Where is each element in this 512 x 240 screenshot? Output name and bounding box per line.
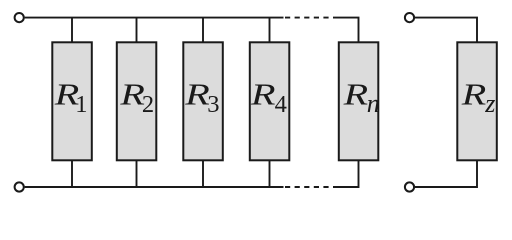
svg-text:R: R [461,77,487,112]
label Rn [342,77,379,118]
resistor R1 [52,42,92,160]
wire bottom bus solid [25,186,284,188]
wire stub top R4 [269,18,271,42]
svg-text:4: 4 [275,91,287,118]
wire stub top R2 [136,18,138,42]
label R4 [250,77,287,118]
wire top bus dashed [285,17,333,19]
wire stub top R1 [71,18,73,42]
svg-text:R: R [250,77,276,112]
svg-text:R: R [342,77,368,112]
svg-text:z: z [484,89,495,118]
terminal bottom-right [405,182,414,191]
wire stub bottom R3 [202,161,204,188]
wire bottom-right to Rz [415,161,477,188]
wire top-right to Rz [415,18,477,42]
svg-text:2: 2 [142,91,154,118]
wire bottom bus dashed [285,186,333,188]
wire stub bottom R1 [71,161,73,188]
resistor Rz [457,42,497,160]
wire top bus to Rn [333,18,359,42]
terminal top-right [405,13,414,22]
wire bottom bus to Rn [333,161,359,188]
resistor R3 [183,42,223,160]
label R2 [119,77,154,118]
wire stub bottom R2 [136,161,138,188]
resistor R2 [117,42,157,160]
terminal bottom-left [15,182,24,191]
label Rz [461,77,496,118]
label R1 [54,77,88,118]
resistor R4 [250,42,289,160]
svg-text:R: R [184,77,210,112]
svg-text:1: 1 [75,91,87,118]
terminal top-left [15,13,24,22]
svg-text:n: n [367,89,380,118]
wire stub top R3 [202,18,204,42]
resistor Rn [339,42,379,160]
wire stub bottom R4 [269,161,271,188]
wire top bus solid [25,17,284,19]
label R3 [184,77,220,118]
svg-text:3: 3 [207,91,219,118]
